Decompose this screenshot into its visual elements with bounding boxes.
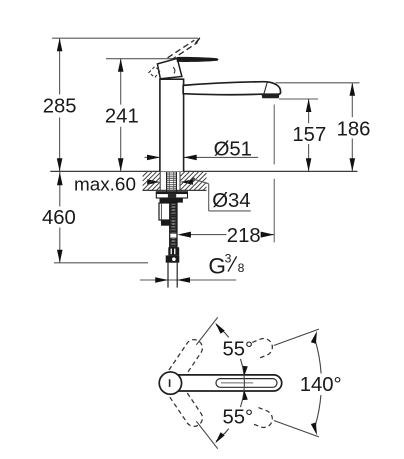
svg-text:140°: 140° xyxy=(300,374,342,396)
svg-text:G: G xyxy=(208,253,226,278)
svg-text:218: 218 xyxy=(227,225,261,247)
svg-text:max.60: max.60 xyxy=(74,175,136,196)
svg-text:3: 3 xyxy=(225,251,232,265)
svg-text:Ø51: Ø51 xyxy=(214,139,252,161)
svg-text:Ø34: Ø34 xyxy=(212,190,250,212)
svg-text:157: 157 xyxy=(292,124,326,146)
svg-text:285: 285 xyxy=(43,96,77,118)
svg-text:186: 186 xyxy=(337,118,371,140)
svg-text:460: 460 xyxy=(42,207,76,229)
svg-text:55°: 55° xyxy=(223,407,254,429)
svg-text:55°: 55° xyxy=(223,339,254,361)
svg-text:241: 241 xyxy=(105,105,139,127)
svg-text:8: 8 xyxy=(238,261,245,275)
